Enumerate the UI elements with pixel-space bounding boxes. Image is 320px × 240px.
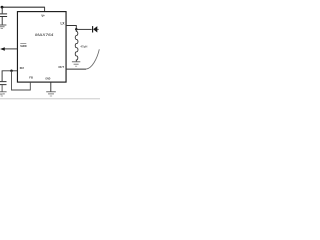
wire OUT pin [66, 68, 86, 70]
diode D1 cathode bar [92, 26, 94, 32]
node B junction dot on REF wire [10, 70, 13, 73]
page rule line bottom [0, 98, 100, 100]
capacitor C3 REF bypass plates [0, 82, 7, 85]
wire SHDN pin [5, 48, 18, 50]
wire LX pin to node [66, 26, 76, 30]
svg-text:LX: LX [61, 22, 66, 26]
ground under GND pin [46, 91, 56, 93]
svg-text:47µH: 47µH [80, 44, 87, 48]
svg-text:MAX764: MAX764 [35, 32, 54, 36]
node A junction dot on V+ rail [1, 6, 4, 9]
svg-text:GND: GND [45, 76, 50, 81]
ground under C3 [0, 91, 7, 93]
page artifact mark bottom left [0, 94, 3, 95]
op-amp U1 MAX764 IC box [17, 12, 66, 83]
wire diode D1 to output [97, 28, 98, 30]
svg-text:OUT: OUT [58, 65, 64, 69]
pin label GND [45, 76, 50, 81]
wire output diagonal to -VOUT [86, 49, 99, 69]
capacitor C2 plates [0, 14, 7, 17]
pin label REF [20, 66, 25, 71]
pin label FB [29, 75, 33, 79]
V+ input rail [1, 6, 45, 8]
wire cap C3 to ground [1, 85, 3, 91]
svg-text:SHDN: SHDN [20, 43, 26, 48]
pin label OUT [58, 65, 64, 69]
SHDN arrow to input [0, 47, 5, 50]
capacitor C2 input bypass: stem [1, 7, 3, 13]
pin label SHDN with overbar [20, 43, 26, 48]
wire cap C2 to ground [1, 17, 3, 25]
pin label V+ [41, 14, 45, 18]
node C junction dot LX [75, 28, 78, 31]
wire FB to REF link [12, 71, 31, 90]
diode D1 triangle [93, 26, 97, 32]
wire GND pin down [50, 82, 52, 92]
pin label LX [61, 22, 66, 26]
ground under inductor L1 [72, 61, 80, 63]
wire node to diode D1 [76, 28, 91, 30]
wire V+ pin from rail to IC [44, 7, 46, 12]
value label 47uH [80, 44, 87, 48]
inductor L1 47uH coil [75, 29, 78, 61]
label MAX764 [35, 32, 54, 36]
svg-text:FB: FB [29, 75, 33, 79]
wire REF pin to capacitor C3 [2, 71, 17, 81]
svg-text:V+: V+ [41, 14, 45, 18]
ground under C2 [0, 24, 6, 26]
svg-text:REF: REF [20, 66, 25, 71]
